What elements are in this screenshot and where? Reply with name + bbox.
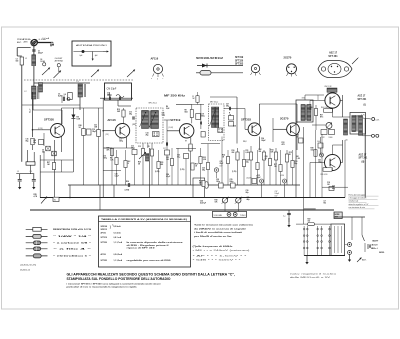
svg-text:(0,2V): (0,2V) (155, 171, 160, 173)
svg-text:C30: C30 (246, 190, 249, 192)
svg-text:1KpF: 1KpF (92, 131, 96, 133)
svg-text:R19: R19 (117, 109, 120, 111)
svg-text:GLI APPARECCHI REALIZZATI SECO: GLI APPARECCHI REALIZZATI SECONDO QUESTO… (67, 272, 236, 276)
svg-text:particolari di essi si raccom: particolari di essi si raccomanda la sta… (67, 285, 138, 288)
svg-text:G 4 mA: G 4 mA (39, 38, 47, 41)
svg-text:R8: R8 (185, 110, 187, 112)
svg-text:(16,5V): (16,5V) (246, 178, 252, 180)
svg-text:CM 33pF: CM 33pF (107, 88, 117, 91)
svg-text:1,1-1,5mA: 1,1-1,5mA (114, 259, 123, 262)
svg-text:0,1μ: 0,1μ (177, 157, 180, 159)
svg-text:C12: C12 (131, 146, 134, 148)
svg-text:10Kp: 10Kp (216, 181, 220, 183)
svg-text:ASZ 17: ASZ 17 (359, 154, 368, 157)
svg-text:C25: C25 (202, 168, 205, 170)
svg-text:AF116: AF116 (151, 57, 159, 61)
svg-text:SFT320: SFT320 (235, 60, 244, 62)
svg-text:R27: R27 (47, 162, 50, 164)
svg-text:i livelli di sensibilità sono: i livelli di sensibilità sono indicati (194, 231, 243, 234)
svg-text:C20: C20 (177, 155, 180, 157)
svg-text:C13: C13 (129, 112, 132, 114)
svg-text:C40: C40 (317, 141, 320, 143)
svg-text:R33: R33 (195, 164, 198, 166)
svg-text:Prima del serraggio: Prima del serraggio (349, 193, 365, 196)
svg-text:” a filo 4 ”: ” a filo 4 ” (53, 248, 91, 251)
svg-text:B,2: B,2 (128, 161, 131, 163)
svg-text:10Kp: 10Kp (119, 141, 123, 143)
svg-text:PRESA: PRESA (17, 38, 25, 41)
svg-text:SFT353: SFT353 (235, 64, 244, 66)
svg-text:BATT: BATT (373, 240, 379, 243)
svg-text:MF1 250-1: MF1 250-1 (149, 103, 157, 105)
svg-text:100p: 100p (162, 115, 166, 117)
svg-text:ANT.: ANT. (24, 41, 29, 44)
svg-text:50Kp: 50Kp (230, 181, 234, 183)
svg-text:SFT 261: SFT 261 (359, 158, 369, 160)
svg-text:C31: C31 (247, 197, 250, 199)
svg-text:6pF: 6pF (80, 55, 83, 57)
svg-text:400pF: 400pF (38, 52, 43, 55)
svg-text:SFD108-SFD112: SFD108-SFD112 (196, 58, 224, 60)
svg-text:C29: C29 (230, 179, 233, 181)
svg-text:C28: C28 (265, 156, 268, 158)
svg-text:smaltare gli: smaltare gli (349, 200, 359, 203)
svg-text:SFT 261: SFT 261 (358, 99, 368, 101)
svg-text:(2,1V): (2,1V) (38, 128, 43, 130)
svg-text:C16: C16 (26, 139, 29, 141)
svg-text:5 μ: 5 μ (283, 216, 285, 218)
svg-text:25μF: 25μF (220, 163, 224, 165)
svg-text:C28: C28 (216, 179, 219, 181)
svg-text:(*)alle frequenze di 600Hz: (*)alle frequenze di 600Hz (193, 246, 233, 248)
svg-text:VOLUME: VOLUME (214, 215, 223, 217)
svg-text:C16: C16 (162, 113, 165, 115)
svg-text:ANTENNA PIEDINO: ANTENNA PIEDINO (76, 44, 107, 47)
svg-text:(6V): (6V) (233, 126, 236, 128)
svg-text:600: 600 (16, 61, 19, 63)
svg-text:R39 0,5Ω: R39 0,5Ω (321, 174, 329, 176)
svg-text:(1,5V): (1,5V) (232, 171, 237, 173)
svg-text:ANT.: ANT. (362, 259, 367, 262)
svg-text:R30: R30 (138, 162, 141, 164)
svg-text:0,1μF: 0,1μF (166, 176, 170, 178)
svg-text:(S=3010-14: (S=3010-14 (20, 270, 30, 272)
svg-text:(1,2V): (1,2V) (180, 169, 185, 171)
svg-text:(2V): (2V) (106, 134, 110, 136)
svg-text:(J4=3010-2 45,4%): (J4=3010-2 45,4%) (20, 265, 37, 267)
svg-text:SFD112: SFD112 (101, 229, 108, 231)
svg-text:C18: C18 (327, 182, 330, 184)
svg-text:Tutte le tensioni misurate con: Tutte le tensioni misurate con voltmetro (194, 223, 254, 226)
svg-text:R36: R36 (310, 107, 313, 109)
svg-text:SFT353: SFT353 (101, 260, 107, 262)
svg-text:ANTENNA: ANTENNA (55, 59, 64, 62)
svg-text:C27: C27 (226, 104, 229, 106)
svg-text:R38: R38 (311, 148, 314, 150)
svg-text:SFD108: SFD108 (101, 226, 108, 228)
svg-text:C26: C26 (246, 160, 249, 162)
svg-text:100μF: 100μF (275, 193, 280, 195)
svg-text:L10: L10 (345, 140, 348, 142)
svg-text:R37: R37 (320, 115, 323, 117)
svg-text:• 6dB • • • 50mV •: • 6dB • • • 50mV • • (193, 260, 242, 262)
svg-text:R40 0,5Ω: R40 0,5Ω (321, 107, 329, 109)
svg-text:2Kp: 2Kp (246, 192, 249, 194)
svg-text:MF2 250-2: MF2 250-2 (210, 101, 218, 103)
svg-text:C13: C13 (138, 146, 141, 148)
svg-text:100μF: 100μF (261, 140, 266, 142)
svg-text:RESISTENZA 1/2W ±5% 1/2 W: RESISTENZA 1/2W ±5% 1/2 W (53, 228, 91, 231)
svg-text:R32: R32 (203, 157, 206, 159)
svg-text:7,9: 7,9 (30, 171, 32, 173)
svg-text:1,9: 1,9 (17, 171, 19, 173)
svg-text:ANT.: ANT. (17, 41, 22, 44)
svg-text:C23: C23 (166, 157, 169, 159)
svg-text:C25: C25 (115, 174, 118, 176)
svg-text:C10: C10 (107, 93, 110, 95)
svg-text:i transistori SFT319 e SFT320: i transistori SFT319 e SFT320 sono adegu… (67, 282, 162, 285)
svg-text:L1: L1 (25, 58, 27, 60)
svg-text:2G270: 2G270 (280, 117, 289, 121)
svg-text:la corrente dipende dalla resi: la corrente dipende dalla resistenza (127, 241, 185, 244)
svg-text:R22: R22 (308, 219, 311, 221)
svg-text:C2,2: C2,2 (243, 141, 246, 143)
svg-text:5Kp: 5Kp (202, 170, 205, 172)
svg-text:R17: R17 (274, 164, 277, 166)
svg-text:10Kp: 10Kp (103, 158, 107, 160)
svg-text:AF116: AF116 (107, 118, 116, 122)
svg-text:L2: L2 (24, 91, 26, 93)
svg-text:R5: R5 (148, 146, 150, 148)
svg-text:+C35: +C35 (256, 175, 260, 177)
svg-text:R13: R13 (282, 142, 285, 144)
svg-text:R18: R18 (215, 200, 218, 202)
svg-text:C11: C11 (119, 139, 122, 141)
svg-text:R6: R6 (166, 106, 168, 108)
svg-text:390: 390 (259, 151, 262, 153)
svg-text:” elettrolitico 1 ”: ” elettrolitico 1 ” (53, 255, 91, 258)
svg-text:10Kp: 10Kp (201, 116, 205, 118)
svg-text:100: 100 (327, 184, 330, 186)
svg-text:5Kp: 5Kp (33, 142, 36, 144)
svg-text:15Kp: 15Kp (107, 95, 111, 97)
svg-text:6÷45 12V: 6÷45 12V (370, 243, 379, 246)
svg-text:R12: R12 (259, 149, 262, 151)
svg-text:SFT320: SFT320 (44, 117, 54, 121)
svg-text:da 20KΩ/V, in assenza di seg: da 20KΩ/V, in assenza di segnale (194, 228, 246, 230)
svg-text:2Kp: 2Kp (146, 135, 149, 137)
svg-text:C15: C15 (103, 156, 106, 158)
svg-text:0,1: 0,1 (265, 158, 267, 160)
svg-text:S2: S2 (54, 200, 56, 202)
svg-text:TONO: TONO (240, 215, 246, 217)
svg-text:SFT319: SFT319 (170, 118, 180, 122)
svg-text:STAMPIGLIATA SUL FONDELLO POST: STAMPIGLIATA SUL FONDELLO POSTERIORE DEL… (67, 277, 172, 281)
svg-text:(1,6V): (1,6V) (169, 127, 174, 129)
svg-text:C17: C17 (163, 148, 166, 150)
svg-text:2G270: 2G270 (284, 56, 292, 60)
svg-text:(I): (I) (364, 104, 366, 106)
svg-text:b: b (157, 79, 158, 81)
svg-text:0,1μF: 0,1μF (29, 109, 31, 113)
svg-text:C2: C2 (16, 59, 18, 61)
svg-text:25μ: 25μ (246, 162, 249, 164)
svg-text:C18: C18 (33, 140, 36, 142)
svg-text:riposo di SFT 319: riposo di SFT 319 (127, 247, 155, 249)
svg-text:e: e (151, 78, 152, 80)
svg-text:5Kp: 5Kp (226, 106, 229, 108)
svg-text:4pF: 4pF (95, 55, 98, 57)
svg-text:0,5-0,5mA: 0,5-0,5mA (114, 253, 123, 256)
svg-text:0,1μF: 0,1μF (115, 176, 119, 178)
svg-text:” a carbone 1/8 ”: ” a carbone 1/8 ” (53, 243, 91, 245)
svg-text:AF116: AF116 (101, 231, 106, 234)
svg-text:regolabile per mezzo di R30: regolabile per mezzo di R30 (127, 260, 171, 262)
svg-text:MF 250 KHz: MF 250 KHz (164, 94, 186, 98)
svg-text:R11: R11 (246, 150, 249, 152)
svg-text:R31: R31 (161, 162, 164, 164)
svg-text:delle MF/Oscill. a 9V: delle MF/Oscill. a 9V (290, 277, 332, 279)
svg-text:6N2 1,2K: 6N2 1,2K (325, 86, 333, 88)
svg-text:AF116: AF116 (101, 253, 106, 256)
svg-text:R10: R10 (232, 150, 235, 152)
svg-text:ASZ 17: ASZ 17 (358, 95, 367, 98)
svg-text:NORM: NORM (335, 214, 340, 216)
svg-text:130: 130 (296, 137, 299, 139)
svg-text:5Kp: 5Kp (129, 114, 132, 116)
svg-text:con tensione di rete: con tensione di rete (349, 206, 366, 209)
svg-text:SFT319: SFT319 (235, 57, 244, 59)
svg-text:150: 150 (308, 221, 311, 223)
svg-text:R15: R15 (289, 152, 292, 154)
svg-text:9,1-9mA: 9,1-9mA (114, 231, 122, 234)
svg-text:SFT319: SFT319 (101, 237, 107, 239)
svg-text:5Kp: 5Kp (26, 141, 29, 143)
svg-text:680: 680 (161, 164, 164, 166)
svg-text:TABELLA CORRENTI A 9V (AS: TABELLA CORRENTI A 9V (ASSENZA DI SEGNAL… (101, 218, 188, 221)
svg-text:L3: L3 (77, 81, 79, 83)
svg-text:8,5-9mA: 8,5-9mA (114, 225, 122, 228)
svg-text:0,8-1 mA: 0,8-1 mA (114, 236, 122, 239)
svg-text:C37: C37 (275, 191, 278, 193)
svg-text:NOM.: NOM. (379, 252, 385, 254)
svg-text:SFT320: SFT320 (101, 242, 107, 244)
svg-text:SFT353: SFT353 (241, 118, 251, 122)
svg-text:nota: regolare il nucleo: nota: regolare il nucleo (290, 272, 336, 275)
svg-text:R9: R9 (185, 141, 187, 143)
svg-text:1,1-1,7mA: 1,1-1,7mA (114, 241, 123, 244)
svg-text:per 50mW d'uscita su 5w.: per 50mW d'uscita su 5w. (194, 235, 233, 238)
svg-text:• MF • • = 240m: • MF • • = 240mV (antenna) (193, 249, 251, 252)
svg-text:150: 150 (274, 166, 277, 168)
svg-text:(II): (II) (362, 161, 365, 163)
svg-text:e fissaggio di serbare: e fissaggio di serbare (349, 197, 367, 200)
svg-text:• AF • • • 1,5: • AF • • • 1,5mV • • (193, 254, 248, 257)
svg-text:C18: C18 (201, 114, 204, 116)
svg-text:(2V): (2V) (133, 124, 136, 126)
svg-text:” 1/4W ” 1/4 ”: ” 1/4W ” 1/4 ” (53, 235, 91, 238)
svg-text:B2: B2 (297, 156, 299, 158)
svg-text:attacchi regolati e a 3 V: attacchi regolati e a 3 V (349, 203, 369, 206)
svg-text:50μ: 50μ (42, 152, 45, 154)
svg-text:SFT 261: SFT 261 (328, 55, 338, 58)
